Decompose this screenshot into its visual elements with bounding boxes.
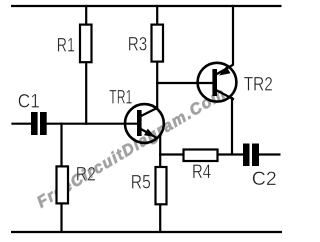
wire bottom ground rail — [11, 231, 282, 233]
wire TR1 emitter down to R5 top — [159, 135, 161, 168]
svg-text:C1: C1 — [18, 92, 40, 113]
svg-text:C2: C2 — [252, 169, 277, 190]
capacitor C1 — [31, 112, 47, 135]
wire R5 bottom to ground rail — [159, 204, 161, 233]
svg-text:R5: R5 — [131, 173, 151, 194]
wire R2 bottom to ground rail — [60, 203, 62, 233]
svg-text:R4: R4 — [192, 162, 211, 183]
svg-text:TR1: TR1 — [109, 88, 132, 109]
capacitor C2 — [243, 144, 259, 167]
svg-text:TR2: TR2 — [244, 75, 273, 96]
transistor TR1 — [125, 104, 164, 143]
svg-text:R1: R1 — [57, 36, 75, 57]
wire input stub — [11, 123, 32, 125]
wire rail to R3 top — [156, 5, 158, 26]
wire TR2 collector to output node — [231, 97, 233, 156]
wire R3 bottom to TR1 collector — [156, 61, 158, 109]
wire TR2 base to R3/TR1 node — [156, 82, 213, 84]
resistor R2 — [57, 166, 69, 203]
resistor R1 — [80, 25, 92, 63]
wire R4 right to C2 — [218, 153, 245, 155]
svg-text:R3: R3 — [128, 34, 148, 55]
transistor TR2 — [198, 63, 237, 102]
resistor R3 — [152, 25, 164, 62]
wire top supply rail — [11, 5, 282, 7]
resistor R5 — [156, 167, 167, 204]
resistor R4 — [184, 150, 218, 162]
wire rail to TR2 emitter — [232, 5, 234, 65]
wire output stub after C2 — [258, 153, 281, 155]
wire C1 to TR1 base — [46, 123, 138, 125]
wire base node to R2 top — [60, 123, 62, 168]
svg-text:R2: R2 — [76, 165, 96, 186]
wire rail to R1 top — [85, 5, 87, 26]
wire emitter node to R4 left — [159, 153, 183, 155]
wire R1 bottom to base node — [85, 61, 87, 125]
